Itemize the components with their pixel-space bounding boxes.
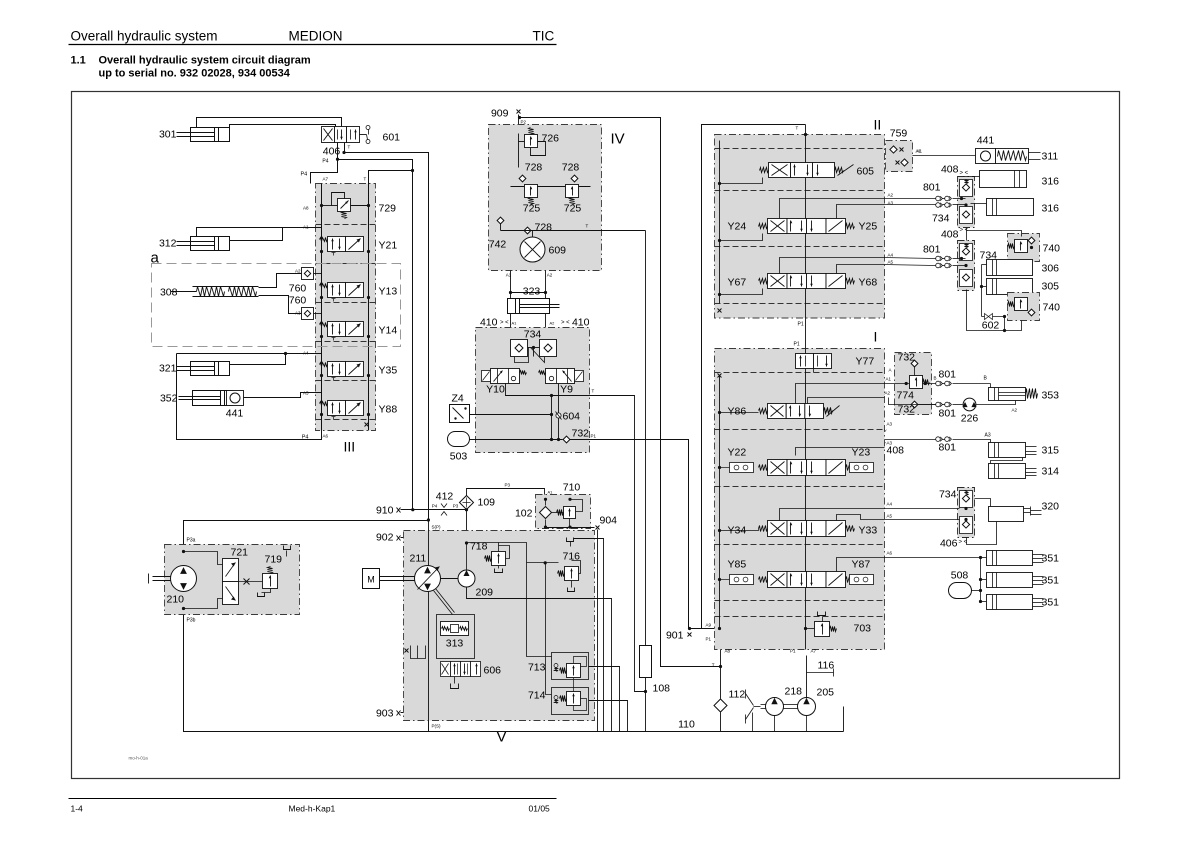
pump 205	[798, 698, 816, 716]
svg-text:312: 312	[159, 238, 177, 250]
cylinder 351 b	[987, 573, 1033, 588]
block I P1 trunk	[805, 349, 807, 650]
svg-text:M: M	[367, 575, 375, 585]
svg-text:Y34: Y34	[728, 525, 747, 537]
svg-text:Y68: Y68	[859, 277, 878, 289]
svg-text:503: 503	[450, 451, 468, 463]
svg-text:Y85: Y85	[728, 559, 747, 571]
check valve 742	[497, 217, 504, 224]
wire 716 tank line	[574, 539, 604, 732]
svg-text:311: 311	[1042, 151, 1059, 163]
svg-text:III: III	[344, 439, 356, 455]
svg-text:408: 408	[941, 229, 959, 241]
svg-text:801: 801	[939, 442, 957, 454]
svg-text:742: 742	[489, 239, 507, 251]
svg-text:Y67: Y67	[728, 277, 747, 289]
valve 605	[769, 163, 791, 178]
svg-text:441: 441	[226, 408, 244, 420]
svg-text:A6: A6	[887, 551, 893, 556]
svg-text:T: T	[586, 224, 589, 229]
svg-text:^: ^	[885, 441, 887, 446]
svg-text:P4: P4	[432, 504, 438, 509]
svg-text:A6: A6	[323, 434, 329, 439]
svg-text:Y35: Y35	[379, 365, 398, 377]
orifice X	[239, 581, 263, 583]
svg-text:1.1: 1.1	[71, 55, 86, 67]
filter 108	[645, 231, 647, 646]
svg-text:725: 725	[523, 203, 541, 215]
coupling	[746, 694, 754, 706]
brake cylinder 441 311	[976, 149, 996, 164]
wire 108 to tank	[645, 678, 647, 732]
accumulator 508	[949, 583, 972, 599]
wire 604 branch	[558, 384, 560, 440]
cylinder 353	[989, 388, 1026, 401]
svg-text:Y23: Y23	[852, 447, 871, 459]
block I left rail	[719, 376, 721, 629]
svg-text:774: 774	[897, 390, 915, 402]
svg-text:P3b: P3b	[187, 618, 196, 624]
svg-text:Y33: Y33	[859, 525, 878, 537]
relief valve 703	[815, 622, 830, 637]
svg-text:Y87: Y87	[852, 559, 871, 571]
wire 406 P4 trunk	[338, 143, 413, 511]
variable pump 211	[415, 566, 441, 592]
wire 718 rail	[499, 543, 552, 657]
svg-text:209: 209	[476, 587, 494, 599]
wire A1 inside	[885, 383, 936, 385]
svg-text:903: 903	[376, 708, 394, 720]
relief 710 internals	[564, 507, 576, 519]
svg-text:441: 441	[977, 135, 995, 147]
svg-text:314: 314	[1042, 466, 1060, 478]
svg-text:602: 602	[982, 320, 1000, 332]
valve 714	[552, 688, 589, 715]
svg-text:740: 740	[1043, 243, 1061, 255]
wire 352 to A5	[244, 393, 322, 398]
svg-text:A2: A2	[885, 391, 891, 396]
svg-text:> <: > <	[561, 320, 570, 326]
valve Y13	[328, 283, 346, 298]
svg-text:A2: A2	[295, 269, 301, 274]
block II left rail	[719, 141, 721, 304]
svg-text:Y86: Y86	[728, 406, 747, 418]
cylinder 305	[987, 279, 1033, 295]
svg-text:801: 801	[939, 408, 957, 420]
svg-text:710: 710	[563, 482, 581, 494]
svg-text:01/05: 01/05	[529, 804, 551, 814]
valve Y24 Y25	[768, 219, 788, 234]
block I	[715, 349, 885, 650]
tank symbol left	[405, 649, 409, 653]
svg-text:352: 352	[160, 393, 178, 405]
cylinder 320	[989, 507, 1024, 522]
wire 406 T trunk to pump suction	[345, 143, 429, 521]
svg-text:TIC: TIC	[533, 29, 555, 44]
wire A8 T down to filter 112	[720, 650, 722, 699]
svg-text:A5: A5	[888, 260, 894, 265]
pump 211 suction line	[428, 521, 430, 566]
svg-text:316: 316	[1042, 203, 1060, 215]
filter 102	[540, 507, 552, 519]
block II outer wire	[702, 125, 806, 629]
svg-text:Overall hydraulic system circu: Overall hydraulic system circuit diagram	[99, 55, 311, 67]
block II	[715, 135, 885, 319]
cylinder 312	[191, 237, 230, 251]
block II P1 trunk	[805, 125, 807, 349]
wire P1 from 503 via orifice 732	[470, 439, 563, 441]
svg-text:218: 218	[785, 686, 803, 698]
accumulator 503	[448, 432, 470, 447]
svg-text:T: T	[796, 126, 799, 131]
svg-text:728: 728	[535, 222, 553, 234]
svg-text:410: 410	[572, 317, 590, 329]
svg-text:306: 306	[1042, 263, 1060, 275]
valve Y35	[328, 362, 346, 377]
svg-text:Y21: Y21	[379, 240, 398, 252]
block II separators	[715, 148, 885, 150]
svg-text:606: 606	[484, 665, 502, 677]
valve Y22 Y23	[768, 460, 788, 476]
svg-text:A1: A1	[512, 321, 518, 326]
pilot valve 760 upper	[302, 268, 314, 280]
oil cooler block 210	[165, 545, 300, 615]
svg-text:P4: P4	[301, 172, 308, 178]
valve Y85 Y87	[768, 572, 788, 588]
svg-text:725: 725	[564, 203, 582, 215]
steering unit 609	[520, 237, 545, 262]
svg-text:412: 412	[436, 491, 454, 503]
wire 909 trunk to tank port	[518, 116, 521, 119]
cylinder 352 with valve 441	[193, 391, 233, 406]
svg-text:Y13: Y13	[379, 286, 398, 298]
svg-text:Y14: Y14	[379, 325, 398, 337]
svg-text:A4: A4	[888, 253, 894, 258]
svg-text:P4: P4	[322, 159, 328, 165]
svg-text:Z4: Z4	[452, 393, 464, 405]
svg-text:A2: A2	[547, 273, 553, 278]
svg-text:721: 721	[231, 547, 249, 559]
svg-text:A2: A2	[888, 193, 894, 198]
svg-text:801: 801	[939, 369, 957, 381]
wire A6 from I	[837, 558, 885, 572]
wire 609 to cylinder 323	[510, 271, 512, 328]
svg-text:734: 734	[932, 213, 950, 225]
svg-text:B: B	[984, 376, 988, 382]
valve bank III rails	[321, 184, 323, 431]
cylinder 321	[191, 362, 230, 376]
page footer	[69, 798, 557, 800]
svg-text:Y77: Y77	[856, 356, 875, 368]
svg-text:719: 719	[265, 554, 283, 566]
servo linkage	[434, 591, 453, 615]
svg-text:P2: P2	[521, 120, 527, 125]
svg-text:P1: P1	[706, 637, 712, 642]
svg-text:726: 726	[542, 133, 560, 145]
svg-text:P3: P3	[453, 504, 459, 509]
svg-text:102: 102	[515, 508, 533, 520]
wire 315 to 314	[991, 458, 1023, 464]
svg-text:mo-h-01a: mo-h-01a	[129, 756, 149, 761]
svg-text:313: 313	[446, 638, 464, 650]
svg-text:110: 110	[678, 719, 695, 731]
valve Y67 Y68	[768, 274, 788, 289]
svg-text:904: 904	[600, 515, 618, 527]
pilot valve 760 lower	[302, 308, 314, 320]
tank riser right	[843, 707, 845, 732]
svg-text:801: 801	[923, 182, 941, 194]
wire 725 bus	[511, 186, 591, 188]
svg-text:P3: P3	[505, 483, 511, 488]
wire T from block IV	[501, 230, 646, 232]
svg-text:A9: A9	[706, 623, 712, 628]
svg-text:713: 713	[528, 662, 546, 674]
svg-text:408: 408	[887, 445, 905, 457]
svg-text:760: 760	[289, 295, 307, 307]
valve Y21	[328, 237, 346, 252]
svg-text:A1: A1	[917, 149, 923, 154]
wire 305 306 common	[981, 265, 983, 287]
wire 904 trunk down	[597, 530, 599, 732]
tank top right	[286, 551, 288, 557]
svg-text:Y24: Y24	[728, 221, 747, 233]
svg-text:P1: P1	[798, 322, 804, 328]
shut-off 602	[981, 287, 983, 317]
svg-text:A7: A7	[323, 177, 329, 182]
valve Y86	[768, 404, 787, 419]
svg-text:205: 205	[817, 687, 835, 699]
valve Y88	[328, 401, 346, 416]
drawing frame	[72, 92, 1120, 779]
svg-text:A2: A2	[1012, 408, 1018, 413]
svg-text:v: v	[885, 428, 887, 433]
fan motor 210	[171, 566, 197, 592]
check block 734 upper	[958, 177, 975, 228]
svg-text:703: 703	[854, 623, 872, 635]
suction loop top	[184, 521, 429, 564]
pilot valve block with Y10 Y9	[476, 328, 590, 453]
orifice 728 lower	[524, 227, 531, 234]
svg-text:508: 508	[951, 570, 969, 582]
svg-text:A7: A7	[811, 649, 817, 654]
wire bank T rail up	[369, 171, 413, 184]
wire 716 rail	[527, 562, 559, 564]
valve block 710	[536, 495, 591, 529]
relief valve 726	[525, 135, 538, 148]
svg-text:A5: A5	[887, 514, 893, 519]
svg-text:734: 734	[939, 489, 957, 501]
svg-text:909: 909	[491, 108, 509, 120]
wires A4 A5 from I	[780, 509, 885, 521]
svg-text:T: T	[592, 389, 595, 394]
svg-text:901: 901	[666, 630, 684, 642]
valve 406 with lever 601	[322, 127, 335, 143]
svg-text:410: 410	[480, 317, 498, 329]
cylinder 315	[989, 443, 1026, 458]
pump 218	[766, 698, 784, 716]
svg-text:P1: P1	[591, 434, 597, 439]
relief valve 719	[263, 574, 278, 589]
svg-text:406: 406	[940, 538, 958, 550]
svg-text:> <: > <	[959, 540, 968, 546]
orifice 732 lower	[911, 401, 918, 408]
svg-text:P(S): P(S)	[432, 724, 442, 729]
svg-text:732: 732	[572, 428, 590, 440]
spring unit 308	[193, 286, 259, 288]
svg-text:601: 601	[383, 132, 401, 144]
cylinder 314	[989, 464, 1026, 479]
svg-text:> <: > <	[960, 171, 969, 177]
svg-text:210: 210	[167, 594, 185, 606]
wire T trunk join	[719, 665, 722, 668]
wire 209 to 718	[467, 543, 499, 570]
wire T from pilot block	[506, 384, 646, 692]
relief valve 725 left	[525, 185, 538, 198]
svg-text:Overall hydraulic system: Overall hydraulic system	[71, 29, 218, 44]
wire 910 P4-P3 line	[401, 509, 467, 511]
svg-text:728: 728	[525, 162, 543, 174]
svg-text:A4: A4	[887, 502, 893, 507]
svg-text:> <: > <	[500, 320, 509, 326]
relief valve 729	[332, 193, 345, 206]
svg-text:I: I	[874, 329, 878, 345]
svg-text:Y9: Y9	[560, 384, 573, 396]
valve 713	[552, 653, 589, 680]
svg-text:211: 211	[410, 553, 427, 565]
svg-text:316: 316	[1042, 176, 1060, 188]
valve Y10	[491, 369, 520, 384]
check block 734 lower	[958, 241, 975, 291]
dash-dot box a	[152, 264, 401, 347]
svg-text:732: 732	[898, 404, 916, 416]
wires 721	[184, 552, 223, 565]
wire A6 to 351 cylinders	[885, 557, 981, 559]
svg-text:T: T	[364, 177, 367, 182]
svg-text:351: 351	[1042, 597, 1060, 609]
wire check block to 602 line	[967, 290, 1022, 331]
wires A1 A2 from I	[796, 384, 885, 404]
svg-text:B: B	[934, 376, 937, 381]
svg-text:760: 760	[289, 283, 307, 295]
wire P4 to bank III	[311, 160, 338, 184]
cylinder 301	[191, 128, 230, 142]
svg-text:109: 109	[478, 497, 496, 509]
cylinder 323	[508, 299, 550, 314]
fan shaft	[153, 576, 171, 578]
svg-text:714: 714	[528, 690, 546, 702]
pilot pump 209	[458, 570, 475, 587]
block V	[404, 531, 595, 721]
wire P3 to valve 710	[467, 489, 545, 500]
valve block 732 774	[895, 353, 932, 415]
svg-text:P3a: P3a	[187, 538, 196, 544]
control unit 313	[437, 615, 475, 659]
valve Y77	[796, 354, 814, 369]
wire bank III return loop	[177, 354, 322, 440]
svg-text:351: 351	[1042, 575, 1060, 587]
switch Z4	[450, 405, 470, 423]
svg-text:729: 729	[379, 203, 397, 215]
wire 759 to 441	[913, 155, 976, 157]
electric motor M	[363, 569, 380, 589]
svg-text:609: 609	[549, 245, 567, 257]
svg-text:116: 116	[818, 660, 835, 672]
svg-text:T: T	[348, 145, 351, 150]
svg-text:740: 740	[1043, 302, 1061, 314]
wires 713 714 outputs	[589, 667, 620, 732]
svg-text:Y88: Y88	[379, 404, 398, 416]
filter 109	[460, 496, 474, 510]
svg-text:A3: A3	[985, 433, 991, 439]
svg-text:226: 226	[961, 413, 979, 425]
wires 734 to 320	[975, 499, 991, 507]
svg-text:Y25: Y25	[859, 221, 878, 233]
wire 713 714 link	[573, 678, 575, 692]
svg-text:A1: A1	[886, 377, 892, 382]
svg-text:301: 301	[159, 129, 177, 141]
svg-text:320: 320	[1042, 501, 1060, 513]
shut-off 604	[556, 413, 561, 418]
svg-text:A3: A3	[887, 422, 893, 427]
svg-text:112: 112	[729, 689, 746, 701]
svg-text:up to serial no. 932 02028, 93: up to serial no. 932 02028, 934 00534	[99, 68, 291, 80]
wire 312 to A1	[197, 228, 322, 237]
svg-text:408: 408	[941, 164, 959, 176]
svg-text:A1: A1	[548, 490, 554, 495]
wires A2 A3 from II	[780, 199, 885, 219]
valve bank III block	[316, 184, 376, 431]
valve bank III separators	[316, 224, 376, 226]
svg-text:910: 910	[376, 505, 394, 517]
wire P1 to block I inlet	[570, 440, 689, 629]
svg-text:351: 351	[1042, 553, 1060, 565]
relief valve 725 right	[566, 185, 579, 198]
motor 226	[963, 398, 976, 411]
svg-text:P1: P1	[790, 649, 796, 654]
svg-text:A: A	[889, 368, 892, 373]
cylinder 306	[987, 260, 1033, 276]
wire 209 outlet	[467, 588, 612, 732]
svg-text:759: 759	[890, 128, 908, 140]
svg-text:II: II	[874, 117, 882, 133]
block I rail stubs	[720, 412, 759, 414]
svg-text:353: 353	[1042, 390, 1060, 402]
svg-text:604: 604	[563, 411, 581, 423]
svg-text:P1: P1	[794, 342, 800, 348]
cylinder 351 c	[987, 595, 1033, 610]
svg-text:728: 728	[562, 162, 580, 174]
svg-text:Y22: Y22	[728, 447, 747, 459]
svg-text:321: 321	[159, 363, 177, 375]
tank return line 110	[429, 731, 844, 733]
svg-text:108: 108	[653, 683, 671, 695]
svg-text:A8: A8	[303, 206, 309, 211]
svg-text:734: 734	[524, 329, 542, 341]
svg-text:605: 605	[857, 166, 875, 178]
svg-text:801: 801	[923, 244, 941, 256]
svg-text:308: 308	[160, 287, 178, 299]
svg-text:Y10: Y10	[486, 384, 505, 396]
relief 774	[910, 376, 923, 389]
svg-text:315: 315	[1042, 445, 1060, 457]
tank 719	[262, 589, 271, 593]
valve Y9	[546, 369, 575, 384]
svg-text:Med-h-Kap1: Med-h-Kap1	[289, 804, 336, 814]
svg-text:1-4: 1-4	[71, 804, 84, 814]
svg-text:A2: A2	[550, 321, 556, 326]
svg-text:IV: IV	[611, 131, 625, 148]
svg-text:305: 305	[1042, 281, 1060, 293]
